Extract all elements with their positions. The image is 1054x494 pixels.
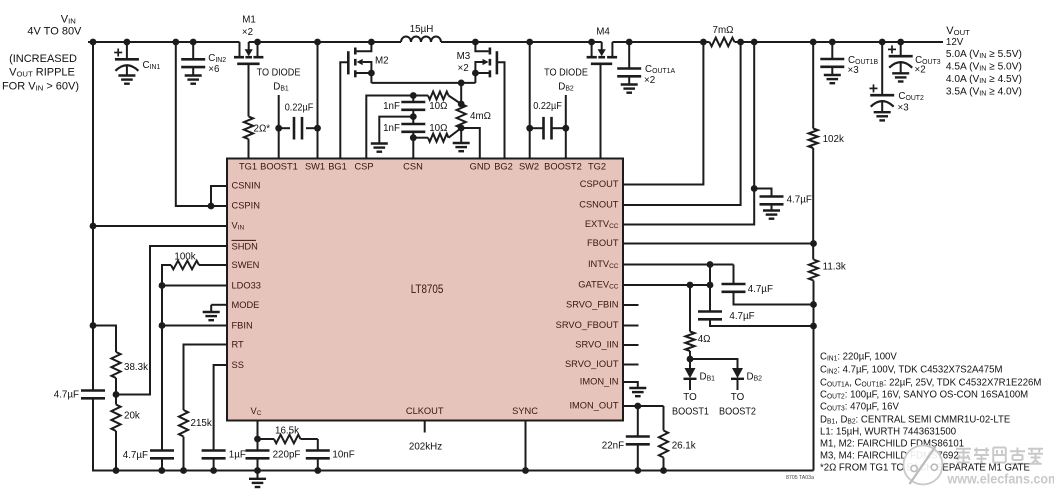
svg-text:LDO33: LDO33 [232, 281, 261, 292]
svg-text:CSPIN: CSPIN [232, 200, 261, 211]
pin label CSP [354, 161, 373, 172]
node junction CIN2 [190, 39, 197, 46]
capacitor COUT2 (polarized) [881, 42, 883, 95]
node junction VIN pin tap [90, 223, 97, 230]
resistor 100k SWEN pull-up [199, 264, 227, 266]
node junction 4mOhm bottom / 10ohm [458, 125, 465, 132]
svg-text:GND: GND [470, 161, 491, 172]
node junction CIN1 [124, 39, 131, 46]
svg-text:4.7µF: 4.7µF [748, 284, 773, 295]
capacitor 0.22uF right boost [530, 127, 544, 129]
node junction sense resistor tap [458, 80, 465, 87]
capacitor COUT1A [628, 42, 630, 69]
svg-text:×3: ×3 [898, 102, 910, 113]
node junction GATEVCC cap [707, 282, 714, 289]
wire SW2 riser [529, 42, 531, 159]
wire LDO33 vertical line [161, 286, 163, 451]
pin label TG1 [239, 161, 257, 172]
node junction SW1 / 0.22uF [314, 125, 321, 132]
node junction COUT1B [829, 39, 836, 46]
pin label SHDN with overline [232, 241, 259, 252]
svg-text:22nF: 22nF [602, 440, 624, 451]
svg-text:4.7µF: 4.7µF [54, 389, 79, 400]
svg-text:16.5k: 16.5k [275, 425, 299, 436]
node junction SW1 riser [314, 39, 321, 46]
capacitor 1nF lower [401, 123, 425, 126]
svg-text:SHDN: SHDN [232, 241, 259, 252]
pin label BG2 [494, 161, 513, 172]
capacitor 1nF upper [412, 96, 414, 103]
node junction 4mOhm top / 10ohm [458, 101, 465, 108]
node junction DB1/DB2 anodes [687, 356, 694, 363]
node junction FBIN tap [159, 322, 166, 329]
svg-text:×2: ×2 [242, 27, 253, 38]
ground at MODE pin [203, 311, 220, 313]
label 0.22uF left [285, 102, 314, 113]
svg-text:BG1: BG1 [328, 161, 347, 172]
wire source bus between M2 and M3 [371, 82, 475, 84]
svg-text:0.22µF: 0.22µF [533, 101, 562, 112]
wire INTVCC pin connection [623, 264, 734, 266]
wire M4 right to COUT1A node [612, 41, 629, 43]
node junction divider feed tap [90, 322, 97, 329]
svg-text:×3: ×3 [848, 65, 860, 76]
pin label RT [232, 340, 244, 351]
pin label SW1 [305, 161, 325, 172]
node junction CSP filter node [410, 92, 417, 99]
node junction 102k top [810, 39, 817, 46]
node junction 1nF midpoint ground tap [410, 113, 417, 120]
wire tie INTVCC to GATEVCC [709, 265, 711, 286]
node junction M4 left [588, 39, 595, 46]
svg-text:CSN: CSN [403, 161, 423, 172]
svg-text:SRVO_IOUT: SRVO_IOUT [565, 359, 619, 370]
svg-text:M1: M1 [242, 14, 256, 25]
wire CSN pin riser [412, 138, 414, 159]
label TO DIODE DB2 [544, 67, 588, 78]
svg-text:SRVO_IIN: SRVO_IIN [575, 339, 618, 350]
ground for 1nF midpoint [371, 142, 388, 144]
svg-text:4.0A (VIN ≥ 4.5V): 4.0A (VIN ≥ 4.5V) [946, 74, 1022, 85]
svg-text:L1: 15µH, WURTH 7443631500: L1: 15µH, WURTH 7443631500 [820, 426, 957, 437]
wire FBOUT to divider [623, 243, 814, 245]
note parts list [820, 351, 897, 362]
wire M3 gate to BG2 pin [497, 62, 505, 158]
capacitor 4.7uF LDO33 [150, 449, 174, 452]
svg-text:LT8705: LT8705 [411, 283, 444, 296]
svg-text:102k: 102k [823, 134, 844, 145]
node junction CSNIN/CSPIN tie [208, 203, 215, 210]
pin label CSNOUT [579, 199, 618, 210]
svg-text:215k: 215k [191, 418, 212, 429]
U1 part number label LT8705 [411, 283, 444, 296]
svg-text:0.22µF: 0.22µF [285, 102, 314, 113]
node junction EXTVCC riser top [751, 39, 758, 46]
resistor 10ohm upper [413, 95, 428, 97]
node junction M2 source [368, 70, 375, 77]
resistor 20k [115, 395, 117, 405]
capacitor 1uF soft-start [202, 449, 226, 452]
svg-text:1nF: 1nF [383, 101, 400, 112]
node junction VIN rail / VIN vertical [90, 39, 97, 46]
node junction 1uF ground [210, 467, 217, 474]
wire SRVO_FBOUT stub [623, 325, 639, 327]
svg-text:BOOST2: BOOST2 [544, 161, 582, 172]
wire BOOST1 riser to diode DB1 [278, 95, 280, 159]
wire CSP pin riser and top filter wire [366, 96, 413, 159]
svg-text:×2: ×2 [644, 75, 655, 86]
capacitor 4.7uF GATEVCC [709, 285, 711, 312]
svg-text:8705 TA03a: 8705 TA03a [786, 475, 814, 481]
ground below CIN1 [118, 74, 135, 76]
wire M3 source to bus [474, 73, 476, 83]
wire CSNOUT to sense resistor right [623, 42, 741, 205]
node junction GATEVCC cap return [810, 323, 817, 330]
watermark chinese characters [956, 448, 1043, 464]
node junction CSNOUT riser top [737, 39, 744, 46]
svg-text:15µH: 15µH [410, 24, 434, 35]
wire SRVO_IIN stub [623, 344, 639, 346]
wire SS pin connection [214, 365, 227, 451]
wire IMON_OUT pin connection [623, 405, 664, 407]
pin label SRVO_FBIN [566, 299, 619, 310]
svg-text:4.7µF: 4.7µF [787, 194, 812, 205]
svg-text:IMON_OUT: IMON_OUT [569, 400, 618, 411]
transistor M2 NMOS low-side left [357, 42, 372, 51]
node junction INTVCC cap return [810, 301, 817, 308]
node junction GATEVCC / 4ohm tap [687, 282, 694, 289]
ground below EXTVCC bypass [763, 209, 780, 211]
node junction 26.1k ground [660, 467, 667, 474]
resistor 10ohm lower [413, 137, 428, 139]
resistor 4mOhm current sense [457, 104, 466, 128]
node junction 4.7uF LDO33 ground [158, 467, 165, 474]
capacitor 4.7uF VIN decoupling [81, 389, 105, 392]
svg-text:4.7µF: 4.7µF [123, 450, 148, 461]
pin label FBIN [232, 321, 253, 332]
wire VOUT divider vertical line [812, 42, 814, 129]
node junction CSN filter node [410, 134, 417, 141]
capacitor 4.7uF EXTVCC bypass [754, 189, 771, 197]
node junction VC compensation [254, 436, 261, 443]
resistor 102k feedback top [809, 129, 818, 149]
pin label SS [232, 360, 244, 371]
label 0.22uF right [533, 101, 562, 112]
wire LDO33 pin connection [162, 285, 227, 287]
wire divider feed to 38.3k [93, 326, 116, 353]
pin label INTVCC [588, 259, 619, 270]
node junction 20k ground [113, 467, 120, 474]
wire 4mOhm bottom to ground [460, 128, 462, 143]
node junction M3 drain [472, 39, 479, 46]
pin label SWEN [232, 260, 260, 271]
node junction LDO33/100k [159, 282, 166, 289]
pin label MODE [232, 300, 260, 311]
watermark www.elecfans.com [947, 471, 1054, 487]
wire rail from inductor to M4 [441, 41, 602, 43]
wire VOUT rail after 7mOhm [735, 41, 944, 43]
wire VOUT rail COUT1A to 7mOhm [629, 41, 709, 43]
svg-text:2Ω*: 2Ω* [254, 123, 271, 134]
svg-text:TG1: TG1 [239, 161, 257, 172]
pin label VC [251, 406, 262, 417]
wire FBIN pin connection [162, 325, 227, 327]
node junction FBOUT divider [810, 240, 817, 247]
wire ground rail [93, 398, 814, 470]
node junction COUT2 [879, 39, 886, 46]
svg-text:SW1: SW1 [305, 161, 325, 172]
svg-text:11.3k: 11.3k [823, 261, 846, 272]
svg-text:SRVO_FBOUT: SRVO_FBOUT [556, 320, 619, 331]
pin label CSPOUT [580, 179, 619, 190]
node junction SYNC ground [522, 467, 529, 474]
ground below COUT2 [874, 111, 891, 113]
node junction M1 right / SW1 rail [254, 39, 261, 46]
svg-text:CSNIN: CSNIN [232, 180, 261, 191]
wire SYNC to ground rail [525, 421, 527, 471]
wire MODE pin to ground [211, 304, 227, 306]
pin label IMON_IN [580, 376, 619, 387]
wire 102k to FBOUT node [812, 148, 814, 260]
wire SRVO_IOUT stub [623, 364, 639, 366]
pin label SW2 [519, 161, 539, 172]
wire SW1 rail from M1 to inductor [249, 41, 401, 43]
pin label IMON_OUT [569, 400, 618, 411]
svg-text:TO DIODE: TO DIODE [544, 67, 588, 78]
svg-text:1µF: 1µF [229, 449, 246, 460]
svg-text:SWEN: SWEN [232, 260, 260, 271]
svg-text:M4: M4 [596, 26, 610, 37]
pin label SRVO_FBOUT [556, 320, 619, 331]
ground symbol main rail [257, 471, 259, 479]
pin label SRVO_IIN [575, 339, 618, 350]
wire SRVO_FBIN stub [623, 304, 639, 306]
pin label GATEVCC [578, 279, 618, 290]
pin label BOOST1 [260, 161, 298, 172]
svg-text:×2: ×2 [458, 63, 469, 74]
svg-text:(INCREASED: (INCREASED [9, 53, 77, 65]
svg-text:7mΩ: 7mΩ [713, 25, 734, 36]
transistor M3 (x2) NMOS low-side right [475, 42, 488, 51]
wire CSPIN to VIN rail [176, 42, 227, 206]
node junction SW2 / 0.22uF [526, 125, 533, 132]
wire BOOST2 riser to diode DB2 [565, 95, 567, 159]
svg-text:3.5A (VIN ≥ 4.0V): 3.5A (VIN ≥ 4.0V) [946, 86, 1022, 97]
pin label LDO33 [232, 281, 261, 292]
ground below CIN2 [185, 74, 202, 76]
label schematic number 8705 TA03a [786, 475, 814, 481]
wire M2 source to bus [370, 73, 372, 83]
node junction INTVCC / GATEVCC tie [707, 261, 714, 268]
svg-text:5.0A (VIN ≥ 5.5V): 5.0A (VIN ≥ 5.5V) [946, 49, 1022, 60]
node junction EXTVCC bypass tap [751, 185, 758, 192]
svg-text:TG2: TG2 [588, 161, 606, 172]
wire SW1 riser [317, 42, 319, 159]
node junction divider tap / SHDN [113, 391, 120, 398]
transistor M4 top gate NMOS output [591, 42, 593, 57]
wire EXTVCC to VOUT rail [623, 42, 754, 225]
wire M4 gate to TG2 pin [600, 64, 602, 159]
svg-text:12V: 12V [946, 37, 964, 48]
resistor 4ohm boost diode feed [689, 285, 691, 332]
svg-text:4.7µF: 4.7µF [729, 311, 754, 322]
capacitor COUT1B [831, 42, 833, 59]
wire CSNIN pin connection [211, 186, 227, 206]
capacitor 22nF IMON filter [637, 406, 639, 437]
svg-text:10nF: 10nF [332, 449, 354, 460]
pin label BG1 [328, 161, 347, 172]
node junction IMON_OUT / 22nF [634, 403, 641, 410]
node junction VC network ground [254, 467, 261, 474]
node junction CSPIN riser [172, 39, 179, 46]
svg-text:20k: 20k [124, 410, 140, 421]
wire CLKOUT stub [424, 421, 426, 433]
svg-text:202kHz: 202kHz [409, 441, 442, 452]
node junction 215k ground [180, 467, 187, 474]
resistor 2ohm gate resistor [248, 64, 250, 117]
watermark elecfans stamp [903, 445, 944, 486]
ground at IMON_IN [629, 387, 646, 389]
svg-text:26.1k: 26.1k [672, 440, 696, 451]
svg-text:SW2: SW2 [519, 161, 539, 172]
resistor 16.5k compensation [258, 438, 275, 440]
node junction SW2 riser [526, 39, 533, 46]
pin label BOOST2 [544, 161, 582, 172]
label TO DIODE DB1 [257, 67, 301, 78]
capacitor 10nF compensation [317, 439, 319, 451]
inductor L1 15uH [401, 37, 441, 43]
svg-text:BOOST1: BOOST1 [672, 406, 709, 417]
ground below COUT1B [824, 74, 841, 76]
svg-text:CLKOUT: CLKOUT [406, 406, 444, 417]
wire VIN pin connection [93, 225, 227, 227]
resistor 38.3k [111, 352, 120, 378]
svg-text:100k: 100k [174, 251, 195, 262]
node junction M2 drain [368, 39, 375, 46]
pin label CSNIN [232, 180, 261, 191]
resistor 26.1k IMON load [663, 406, 665, 431]
capacitor CIN1 (polarized) [126, 42, 128, 59]
pin label TG2 [588, 161, 606, 172]
svg-text:COUT2: 100µF, 16V, SANYO OS-CO: COUT2: 100µF, 16V, SANYO OS-CON 16SA100M [820, 389, 1028, 400]
svg-text:CIN2: 4.7µF, 100V, TDK C4532X7: CIN2: 4.7µF, 100V, TDK C4532X7S2A475M [820, 364, 1002, 375]
svg-text:COUT1A, COUT1B: 22µF, 25V, TDK: COUT1A, COUT1B: 22µF, 25V, TDK C4532X7R1… [820, 377, 1041, 388]
pin label CLKOUT [406, 406, 444, 417]
wire divider line to ground rail [813, 281, 815, 471]
transistor M1 (x2) top gate NMOS [239, 42, 241, 57]
svg-text:×6: ×6 [208, 64, 220, 75]
svg-text:10Ω: 10Ω [429, 101, 447, 112]
wire M2 gate to BG1 pin [340, 62, 348, 158]
ground below COUT1A [621, 83, 638, 85]
svg-text:IMON_IN: IMON_IN [580, 376, 619, 387]
svg-text:CSPOUT: CSPOUT [580, 179, 619, 190]
svg-text:×2: ×2 [915, 64, 926, 75]
svg-text:CSP: CSP [354, 161, 373, 172]
svg-text:TO: TO [683, 392, 697, 403]
wire 4mOhm bottom to GND pin [461, 128, 480, 159]
wire GATEVCC pin connection [623, 284, 710, 286]
node junction BOOST1 / 0.22uF [275, 125, 282, 132]
node junction BOOST2 / 0.22uF [562, 125, 569, 132]
svg-text:4V TO 80V: 4V TO 80V [27, 25, 82, 37]
svg-text:RT: RT [232, 340, 244, 351]
svg-text:10Ω: 10Ω [429, 123, 447, 134]
svg-text:FBIN: FBIN [232, 321, 253, 332]
pin label SRVO_IOUT [565, 359, 619, 370]
ground below COUT3 [892, 72, 909, 74]
svg-text:MODE: MODE [232, 300, 260, 311]
svg-text:SYNC: SYNC [512, 406, 538, 417]
svg-text:SRVO_FBIN: SRVO_FBIN [566, 299, 619, 310]
note output current ratings [946, 49, 1022, 60]
wire RT pin connection [184, 345, 228, 411]
node junction 22nF ground [634, 467, 641, 474]
node junction COUT1A [626, 39, 633, 46]
svg-text:220pF: 220pF [273, 449, 301, 460]
pin label CSN [403, 161, 423, 172]
resistor 11.3k feedback bottom [809, 260, 818, 281]
node junction 10nF ground [314, 467, 321, 474]
diode DB1 [689, 359, 691, 368]
svg-text:CSNOUT: CSNOUT [579, 199, 618, 210]
capacitor CIN2 [192, 42, 194, 59]
resistor 7mOhm output sense [710, 38, 735, 47]
svg-text:BOOST2: BOOST2 [719, 406, 756, 417]
svg-text:1nF: 1nF [383, 123, 400, 134]
op-amp U1 LT8705 controller IC body [227, 159, 623, 421]
pin label SYNC [512, 406, 538, 417]
pin label VIN [232, 220, 245, 231]
svg-text:38.3k: 38.3k [124, 362, 148, 373]
pin label CSPIN [232, 200, 261, 211]
svg-text:BG2: BG2 [494, 161, 513, 172]
wire VC pin stub [257, 421, 259, 440]
ground below 4mOhm [453, 142, 470, 144]
wire IMON_IN to ground [623, 382, 638, 388]
capacitor COUT3 (polarized) [900, 42, 902, 56]
capacitor 220pF [257, 439, 259, 451]
wire SHDN to divider tap [116, 246, 227, 395]
diode DB2 [732, 368, 743, 378]
pin label GND [470, 161, 491, 172]
wire anode to DB2 [690, 359, 738, 368]
wire VIN rail from input to M1 [88, 41, 240, 43]
svg-text:4Ω: 4Ω [698, 334, 711, 345]
resistor 215k RT [179, 410, 188, 437]
node junction CSPOUT riser top [700, 39, 707, 46]
capacitor 4.7uF INTVCC [733, 265, 735, 285]
node junction M3 source [472, 70, 479, 77]
pin label EXTVCC [585, 219, 619, 230]
svg-text:M3: M3 [457, 51, 471, 62]
svg-text:FBOUT: FBOUT [587, 238, 619, 249]
pin label FBOUT [587, 238, 619, 249]
wire CSPOUT to sense resistor left [623, 42, 703, 185]
wire midpoint to ground [379, 117, 413, 143]
svg-text:4.5A (VIN ≥ 5.0V): 4.5A (VIN ≥ 5.0V) [946, 61, 1022, 72]
svg-text:BOOST1: BOOST1 [260, 161, 298, 172]
wire bus to 4mOhm [460, 83, 462, 104]
node junction COUT3 [897, 39, 904, 46]
capacitor 0.22uF left boost [279, 127, 290, 129]
svg-text:M1, M2: FAIRCHILD FDMS86101: M1, M2: FAIRCHILD FDMS86101 [820, 438, 964, 449]
svg-text:TO DIODE: TO DIODE [257, 67, 301, 78]
svg-text:TO: TO [731, 392, 745, 403]
svg-text:4mΩ: 4mΩ [470, 111, 491, 122]
svg-text:M2: M2 [375, 55, 389, 66]
wire VIN vertical line [92, 42, 94, 391]
